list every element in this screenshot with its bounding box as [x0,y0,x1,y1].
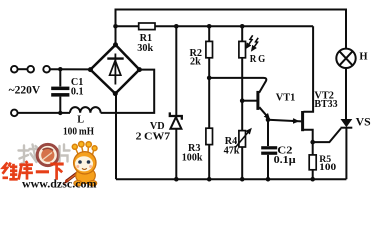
terminal circles ~220V [11,66,18,73]
thyristor VS [341,119,353,127]
R4 wiper arrow [235,132,248,147]
svg-text:100 mH: 100 mH [63,126,94,137]
wire R3 branch [208,78,210,128]
svg-text:0.1μ: 0.1μ [274,155,296,166]
resistor R5 [309,155,316,170]
resistor R3 [206,128,213,144]
transistor VT1 [256,91,259,110]
wire bridge negative lead [115,94,117,180]
svg-text:2 CW7: 2 CW7 [136,131,171,142]
wire VT2 b2 lead [303,26,313,112]
svg-text:R G: R G [250,53,266,65]
watermark char pian (gray outlined) [60,145,70,162]
wire L to bridge right corner [101,70,155,113]
watermark magnifier stamp [37,144,58,165]
resistor R2 [206,41,213,57]
char yi [36,170,49,173]
watermark red text weiku-yixia (drawn strokes) [3,161,64,180]
svg-text:100k: 100k [182,153,203,164]
capacitor C2 [261,146,277,149]
svg-text:H: H [359,52,367,63]
wire inner rail [116,25,139,27]
watermark dzsc.com group [3,142,98,191]
svg-text:VS: VS [356,116,371,128]
watermark mascot head [74,152,96,174]
svg-text:2k: 2k [190,57,201,68]
watermark mascot pen/brush [64,168,85,185]
light arrows at RG [249,35,253,44]
wire bridge top lead [115,26,117,45]
svg-text:www.dzsc.com: www.dzsc.com [22,178,97,190]
watermark char zhao (gray outlined) [19,145,39,164]
svg-text:0.1: 0.1 [71,87,84,98]
svg-text:100: 100 [319,162,336,173]
potentiometer R4 [239,131,246,147]
wire top rail [116,10,347,49]
wire VS gate [313,128,341,142]
transistor VT2 BT33 [301,111,304,131]
wire RG branch [241,26,243,41]
resistor R1 [139,23,155,30]
lamp H [336,49,355,68]
wire R4 branch [241,101,243,131]
bridge internal diode [114,54,116,85]
svg-text:L: L [77,115,84,126]
svg-text:VT1: VT1 [276,92,296,103]
inductor L 100mH [70,107,101,113]
wire AC neutral input [18,112,70,114]
photoresistor RG [239,41,246,57]
svg-text:VD: VD [150,121,165,132]
watermark mascot body and feet [76,168,96,184]
zener diode VD 2CW7 [170,112,182,128]
wire R2 branch [208,26,210,41]
svg-text:30k: 30k [137,43,153,54]
char ku [26,161,28,163]
svg-text:47k: 47k [224,146,240,157]
wire R2 to VT1 collector [209,78,266,93]
wire lamp to VS [345,68,347,119]
svg-text:BT33: BT33 [314,99,337,110]
watermark mascot antennae crown [72,142,97,155]
wire VD branch [175,26,177,116]
wire R5 branch [312,142,314,155]
wire bottom rail [116,178,346,180]
char wei [3,163,8,174]
svg-text:~220V: ~220V [9,83,41,97]
wire AC live input [18,68,28,70]
wire VT1 emitter node to C2 and VT2 [267,120,269,146]
bridge rectifier diamond [90,45,139,94]
capacitor C1 [59,69,61,86]
wire VT1 base [242,100,256,102]
char xia [50,162,63,165]
